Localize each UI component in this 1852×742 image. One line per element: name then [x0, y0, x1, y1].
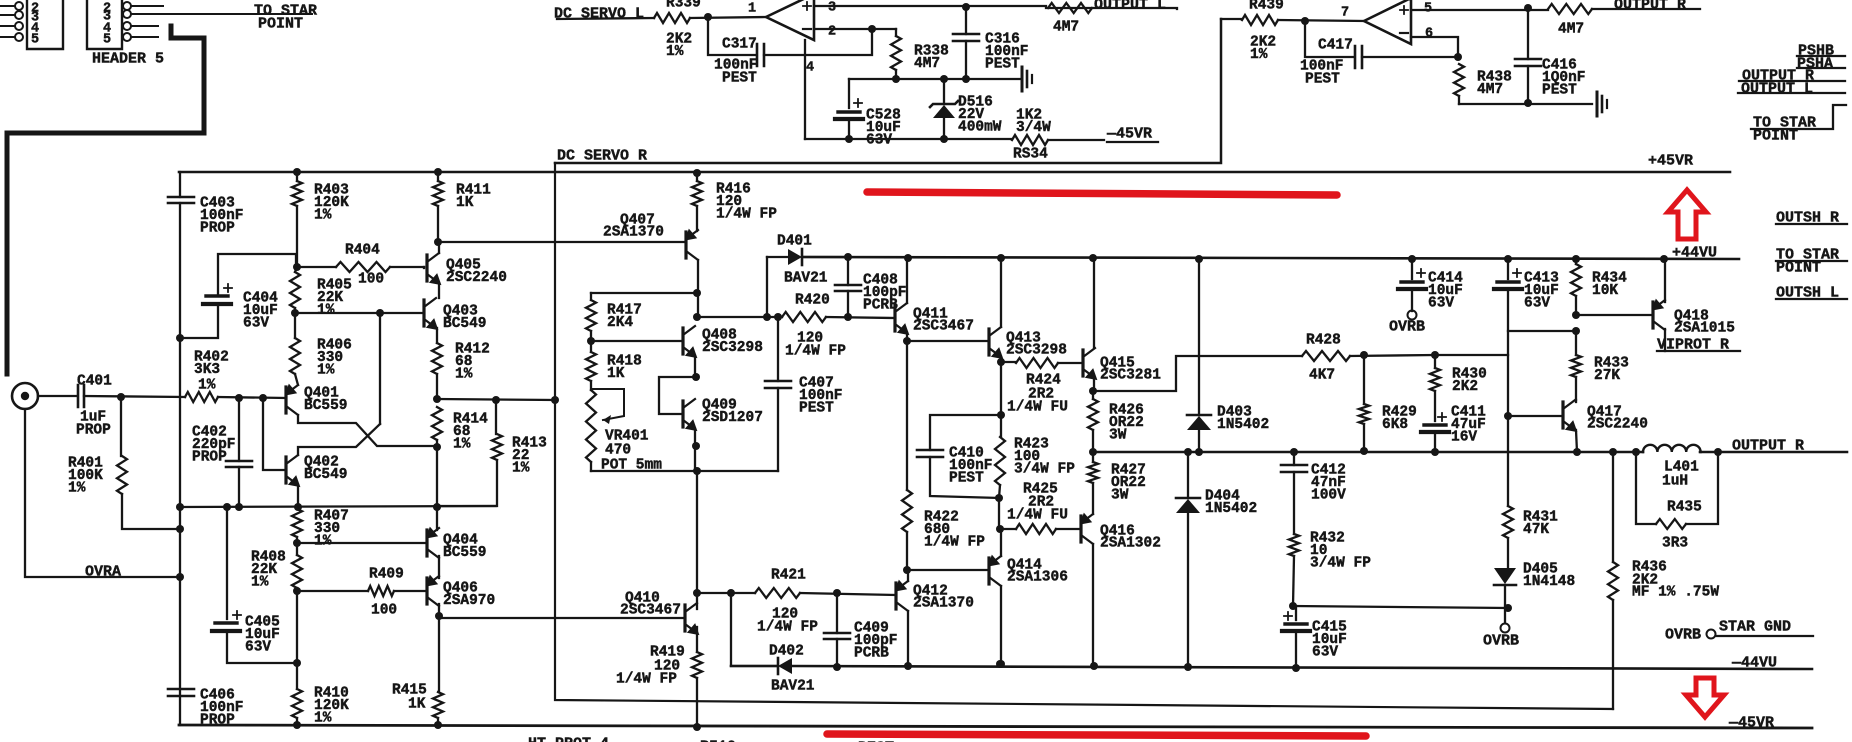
- svg-text:—44VU: —44VU: [1731, 655, 1777, 672]
- svg-text:R439: R439: [1249, 0, 1284, 13]
- pot VR401 470: [586, 390, 596, 462]
- wire Q411 collector to rail: [906, 258, 908, 303]
- wire Q414 emitter: [1000, 529, 1002, 556]
- wire -45VR branch: [805, 138, 1012, 140]
- wire dc servo L: [557, 18, 654, 19]
- wire Q405 collector to R411: [438, 242, 440, 253]
- wire R421 to Q412 base: [697, 592, 755, 594]
- wire C413 to bias bus: [1508, 330, 1576, 332]
- wire output L: [1046, 8, 1177, 9]
- diode D402 BAV21: [731, 593, 778, 666]
- ground wire: [849, 78, 1020, 80]
- resistor R433 27K: [1575, 331, 1577, 355]
- svg-text:DC SERVO L: DC SERVO L: [554, 6, 644, 23]
- resistor R410 120K 1%: [296, 591, 298, 689]
- svg-text:MF 1% .75W: MF 1% .75W: [1632, 584, 1719, 600]
- wire to Q403 base: [295, 312, 424, 314]
- resistor R419 120 1/4W FP: [696, 627, 698, 652]
- bus Q405/Q403: [438, 283, 440, 298]
- svg-text:3: 3: [828, 1, 836, 16]
- svg-text:OVRB: OVRB: [1389, 319, 1425, 336]
- cross-coupling wires: [298, 415, 437, 446]
- resistor R429 6K8: [1363, 355, 1365, 404]
- svg-text:R435: R435: [1667, 499, 1702, 515]
- capacitor C407 100nF PEST: [777, 317, 779, 381]
- resistor R403 120K 1%: [293, 168, 301, 176]
- pin 2 stub: [131, 5, 163, 7]
- svg-text:4M7: 4M7: [1477, 82, 1503, 98]
- svg-text:—45VR: —45VR: [1728, 715, 1774, 732]
- capacitor C316 100nF PEST: [965, 7, 967, 34]
- connector HEADER 5: [87, 0, 122, 49]
- capacitor C414 10uF 63V: [1411, 259, 1413, 279]
- transistor Q405 2SC2240: [425, 255, 428, 281]
- resistor R407 330 1%: [296, 507, 298, 509]
- resistor R432 10 3/4W FP: [1289, 534, 1299, 556]
- resistor R413 22 1%: [495, 400, 497, 434]
- svg-text:4M7: 4M7: [1558, 21, 1584, 37]
- svg-text:63V: 63V: [866, 133, 892, 149]
- node: [704, 13, 712, 21]
- svg-text:3K3: 3K3: [194, 362, 220, 378]
- svg-text:HEADER 5: HEADER 5: [92, 51, 164, 68]
- svg-text:2SC3467: 2SC3467: [913, 318, 974, 334]
- wire VR401 bottom to C407: [591, 470, 778, 472]
- wire Q406 emitter to Q410 base: [439, 604, 685, 618]
- wire Q416 collector: [1092, 544, 1094, 666]
- svg-text:STAR GND: STAR GND: [1719, 619, 1791, 636]
- svg-text:63V: 63V: [243, 316, 269, 332]
- svg-text:OVRB: OVRB: [1483, 633, 1519, 650]
- svg-text:C417: C417: [1318, 37, 1353, 53]
- pin6 - input wire: [1411, 37, 1458, 57]
- svg-text:1N5402: 1N5402: [1205, 501, 1257, 517]
- transistor Q408 2SC3298: [681, 328, 684, 354]
- svg-text:1K: 1K: [456, 195, 474, 211]
- pin2 - input wire: [814, 28, 896, 30]
- resistor R412 68 1%: [436, 328, 438, 343]
- transistor Q417 2SC2240: [1561, 402, 1564, 428]
- resistor R534 1K2 3/4W: [1012, 135, 1048, 145]
- svg-text:4: 4: [806, 61, 814, 76]
- resistor R417 2K4: [590, 293, 592, 300]
- svg-text:2SA1302: 2SA1302: [1100, 535, 1161, 551]
- node R404/R405: [293, 263, 301, 271]
- wire Q408/Q409 link: [659, 377, 696, 414]
- svg-text:C401: C401: [77, 373, 112, 389]
- signal ground line: [180, 506, 496, 507]
- transistor Q415 2SC3281: [1081, 350, 1084, 376]
- svg-text:PROP: PROP: [76, 422, 111, 438]
- wire OVRA from jack: [25, 409, 180, 577]
- transistor Q406 2SA970: [425, 578, 428, 604]
- svg-text:OVRA: OVRA: [85, 564, 121, 581]
- svg-text:BC559: BC559: [443, 545, 487, 561]
- svg-text:POINT: POINT: [1753, 128, 1798, 145]
- wire base Q405: [423, 267, 425, 268]
- svg-text:2K2: 2K2: [1452, 379, 1478, 395]
- wire R407 to Q404 base: [297, 542, 427, 544]
- svg-text:PEST: PEST: [722, 70, 757, 86]
- terminal OVRB (mid): [1501, 624, 1510, 633]
- capacitor C404 10uF 63V: [218, 254, 296, 296]
- svg-text:1%: 1%: [198, 377, 216, 393]
- wire input: [84, 396, 185, 397]
- transistor Q403 BC549: [422, 300, 425, 326]
- pin3 + input wire: [814, 5, 1046, 7]
- resistor 4M7 (L out): [1048, 3, 1092, 13]
- svg-text:1%: 1%: [314, 534, 332, 550]
- svg-text:2SA970: 2SA970: [443, 593, 495, 609]
- svg-text:1%: 1%: [455, 367, 473, 383]
- svg-text:2SA1370: 2SA1370: [913, 595, 974, 611]
- svg-text:+44VU: +44VU: [1672, 245, 1717, 262]
- svg-text:BAV21: BAV21: [784, 270, 828, 286]
- svg-text:OUTPUT L: OUTPUT L: [1094, 0, 1166, 14]
- resistor R408 22K 1%: [296, 543, 298, 555]
- svg-text:1/4W FP: 1/4W FP: [924, 535, 985, 551]
- svg-text:PEST: PEST: [799, 401, 834, 417]
- svg-text:PEST: PEST: [1305, 71, 1340, 87]
- svg-text:2SA1370: 2SA1370: [603, 224, 664, 240]
- svg-text:5: 5: [1424, 2, 1432, 17]
- resistor R425 2R2 1/4W FU: [1000, 528, 1016, 530]
- capacitor C405 10uF 63V: [226, 507, 228, 619]
- resistor R430 2K2: [1434, 355, 1436, 368]
- ground: [1596, 92, 1599, 116]
- resistor R420 120 1/4W FP: [782, 312, 826, 322]
- capacitor C401 1uF PROP: [78, 385, 84, 407]
- transistor Q413 2SC3298: [987, 329, 990, 355]
- svg-text:2SC3467: 2SC3467: [620, 602, 681, 618]
- resistor R423 100 3/4W FP: [1000, 362, 1002, 437]
- svg-text:2SD1207: 2SD1207: [702, 410, 763, 426]
- svg-text:27K: 27K: [1594, 368, 1620, 384]
- capacitor C406 100nF PROP: [168, 689, 194, 696]
- resistor R402 3K3 1%: [185, 392, 218, 402]
- svg-text:3W: 3W: [1111, 488, 1129, 504]
- wire to Q413 base: [907, 340, 989, 342]
- svg-text:R339: R339: [666, 0, 701, 11]
- resistor R406 330 1%: [294, 313, 296, 338]
- wire OVRB row: [1293, 606, 1508, 608]
- resistor R404 100: [297, 266, 336, 268]
- svg-text:6: 6: [1425, 27, 1433, 42]
- resistor R426 OR22 3W: [1092, 391, 1094, 399]
- svg-text:2SC2240: 2SC2240: [446, 270, 507, 286]
- svg-text:100: 100: [358, 271, 384, 287]
- resistor R409 100: [297, 590, 368, 592]
- wire mid to servo bus: [437, 399, 555, 400]
- resistor R435 3R3 parallel: [1636, 452, 1718, 524]
- transistor Q416 2SA1302: [1079, 516, 1082, 542]
- svg-text:1N5402: 1N5402: [1217, 417, 1269, 433]
- svg-text:1%: 1%: [317, 363, 335, 379]
- svg-text:63V: 63V: [1524, 296, 1550, 312]
- transistor Q414 2SA1306: [987, 558, 990, 584]
- svg-text:16V: 16V: [1451, 430, 1477, 446]
- svg-text:5: 5: [31, 33, 39, 48]
- capacitor C403 100nF PROP: [168, 197, 194, 203]
- svg-text:2SC3298: 2SC3298: [1006, 342, 1067, 358]
- svg-text:OUTPUT R: OUTPUT R: [1732, 438, 1804, 455]
- svg-text:D402: D402: [769, 643, 804, 659]
- svg-text:PROP: PROP: [192, 450, 227, 466]
- red underline annotation (top): [867, 192, 1337, 195]
- resistor R401 100K 1%: [120, 397, 122, 456]
- resistor R438 4M7: [1454, 64, 1464, 96]
- svg-text:1: 1: [748, 2, 756, 17]
- svg-text:5: 5: [103, 33, 111, 48]
- svg-text:PROP: PROP: [200, 713, 235, 729]
- svg-text:100V: 100V: [1311, 488, 1346, 504]
- svg-text:1uH: 1uH: [1662, 473, 1688, 489]
- resistor 4M7 (R out): [1548, 4, 1592, 14]
- wire Q416 emitter: [1092, 483, 1094, 514]
- transistor Q418 2SA1015: [1651, 302, 1654, 328]
- svg-text:1/4W FP: 1/4W FP: [757, 619, 818, 635]
- resistor R434 10K: [1575, 259, 1577, 264]
- rail OUTPUT R: [1093, 451, 1847, 454]
- bus between Q404/Q406: [438, 556, 440, 578]
- capacitor C408 100pF PCRB: [847, 257, 849, 285]
- feedback line to DC SERVO R: [555, 163, 1613, 709]
- wire R417 top: [591, 292, 697, 294]
- wire to Q402 base: [263, 398, 286, 470]
- svg-text:PROP: PROP: [200, 221, 235, 237]
- svg-text:1%: 1%: [317, 303, 335, 319]
- wire Q412 emitter: [907, 570, 909, 581]
- resistor R338 4M7: [895, 29, 897, 36]
- wire from jack: [38, 395, 76, 397]
- wire Q418 emitter to rail: [1664, 259, 1666, 302]
- transistor Q412 2SA1370: [894, 583, 897, 609]
- wire Q411 emitter bus: [906, 333, 908, 341]
- svg-text:1%: 1%: [1250, 47, 1268, 63]
- wire to op-amp: [690, 17, 766, 18]
- zener D516 22V 400mW: [943, 79, 945, 104]
- svg-text:1/4W FP: 1/4W FP: [616, 671, 677, 687]
- svg-text:RS34: RS34: [1013, 146, 1048, 162]
- wire to op-amp: [1278, 20, 1364, 21]
- transistor Q407 2SA1370: [684, 232, 687, 258]
- svg-text:PCRB: PCRB: [854, 646, 889, 662]
- op-amp pin4 lead: [804, 40, 806, 139]
- svg-text:400mW: 400mW: [958, 120, 1002, 136]
- red down arrow annotation: [1686, 678, 1724, 717]
- wire from DC SERVO R riser: [1221, 18, 1242, 20]
- capacitor C412 47nF 100V: [1293, 452, 1295, 465]
- diode D404 1N5402: [1187, 452, 1189, 498]
- svg-text:63V: 63V: [1428, 296, 1454, 312]
- svg-text:2SC2240: 2SC2240: [1587, 416, 1648, 432]
- transistor Q404 BC559: [425, 530, 428, 556]
- red underline annotation (bottom): [827, 734, 1366, 736]
- svg-text:2SA1306: 2SA1306: [1007, 569, 1068, 585]
- resistor R427 OR22 3W: [1092, 452, 1094, 462]
- svg-text:PEST: PEST: [985, 57, 1020, 73]
- capacitor C402 220pF PROP: [238, 398, 240, 461]
- left decoupling bus: [179, 172, 181, 725]
- svg-text:1/4W FU: 1/4W FU: [1007, 399, 1068, 415]
- svg-text:—45VR: —45VR: [1106, 126, 1152, 143]
- svg-text:4M7: 4M7: [1053, 19, 1079, 35]
- pin 5 stub: [131, 36, 158, 38]
- resistor R436 2K2 MF: [1612, 452, 1614, 562]
- svg-text:2K4: 2K4: [607, 315, 633, 331]
- svg-text:470: 470: [605, 442, 631, 458]
- svg-text:R420: R420: [795, 292, 830, 308]
- capacitor C413 10uF 63V: [1507, 259, 1509, 279]
- terminal OVRB (C414): [1408, 311, 1417, 320]
- resistor R416 120 1/4W FP: [693, 169, 701, 177]
- connector J1 (left, partially cut): [27, 0, 63, 49]
- svg-text:R409: R409: [369, 566, 404, 582]
- svg-text:2SC3281: 2SC3281: [1100, 367, 1161, 383]
- capacitor C528 10uF 63V: [848, 79, 850, 108]
- bottom wire: [1459, 103, 1592, 105]
- transistor Q410 2SC3467: [683, 605, 686, 631]
- resistor R431 47K: [1503, 506, 1513, 538]
- wire Q417 base: [1508, 415, 1563, 417]
- rail -45VR (bottom): [179, 725, 1812, 728]
- capacitor C409 100pF PCRB: [836, 593, 838, 633]
- svg-text:PEST: PEST: [1542, 83, 1577, 99]
- svg-text:OUTPUT R: OUTPUT R: [1614, 0, 1686, 14]
- wire to Q418 base: [1576, 314, 1653, 316]
- svg-text:4K7: 4K7: [1309, 367, 1335, 383]
- wire Q413 collector to rail: [1000, 258, 1002, 327]
- wire to Q414 base: [907, 569, 989, 571]
- resistor R405 22K 1%: [295, 267, 297, 272]
- svg-text:1%: 1%: [251, 575, 269, 591]
- svg-text:HT PROT 4: HT PROT 4: [528, 736, 609, 742]
- svg-text:1%: 1%: [68, 481, 86, 497]
- svg-text:BC549: BC549: [443, 316, 487, 332]
- svg-text:1/4W FP: 1/4W FP: [716, 207, 777, 223]
- emitter sense wire to R428: [1093, 356, 1302, 391]
- svg-text:3/4W: 3/4W: [1016, 120, 1051, 136]
- svg-text:7: 7: [1341, 6, 1349, 21]
- svg-text:47K: 47K: [1523, 522, 1549, 538]
- rail -44VU: [731, 666, 1812, 669]
- thick input screen wire: [7, 26, 204, 374]
- wire Q410 collector: [696, 593, 698, 609]
- resistor R418 1K: [590, 341, 592, 352]
- wire Q415 collector to rail: [1093, 258, 1095, 348]
- svg-text:1/4W FP: 1/4W FP: [785, 343, 846, 359]
- transistor Q409 2SD1207: [681, 401, 684, 427]
- svg-text:100: 100: [371, 602, 397, 618]
- capacitor C415 10uF 63V: [1295, 606, 1297, 620]
- pin5 + input wire: [1411, 9, 1548, 11]
- diode D405 1N4148: [1494, 568, 1516, 584]
- pin 4 stub: [131, 25, 158, 27]
- wire to Q408 base: [591, 340, 683, 342]
- svg-text:R428: R428: [1306, 332, 1341, 348]
- svg-text:2SC3298: 2SC3298: [702, 340, 763, 356]
- wire Q417 collector: [1575, 400, 1577, 402]
- wire C405 node: [293, 659, 301, 667]
- svg-text:OUTPUT L: OUTPUT L: [1741, 81, 1813, 98]
- wire R411 node to Q407 base: [438, 241, 686, 243]
- svg-text:10K: 10K: [1592, 283, 1618, 299]
- wire Q412 collector: [907, 611, 909, 666]
- diode D401 BAV21: [766, 257, 768, 317]
- resistor R424 2R2 1/4W FU: [1001, 361, 1016, 363]
- svg-text:1/4W FU: 1/4W FU: [1007, 507, 1068, 523]
- node dots on -44VU rail: [997, 660, 1005, 668]
- wire Q418 collector to VIPROT: [1664, 329, 1666, 351]
- capacitor C410 100nF PEST loop: [930, 415, 1001, 450]
- svg-text:1%: 1%: [512, 461, 530, 477]
- svg-text:63V: 63V: [245, 640, 271, 656]
- svg-text:1K: 1K: [607, 366, 625, 382]
- svg-text:D401: D401: [777, 233, 812, 249]
- svg-text:3R3: 3R3: [1662, 535, 1688, 551]
- svg-text:PCRB: PCRB: [863, 298, 898, 314]
- svg-text:63V: 63V: [1312, 645, 1338, 661]
- bus Q409: [694, 429, 696, 472]
- capacitor C417 100nF PEST: [1305, 21, 1353, 57]
- resistor R421 120 1/4W FP: [755, 588, 800, 598]
- svg-text:BAV21: BAV21: [771, 678, 815, 694]
- svg-text:OVRB: OVRB: [1665, 627, 1701, 644]
- bus to Q410: [696, 471, 698, 593]
- wire Q417 emitter to output rail: [1576, 430, 1577, 452]
- transistor Q401 BC559: [284, 387, 287, 413]
- red up arrow annotation: [1668, 190, 1706, 239]
- svg-text:1%: 1%: [314, 208, 332, 224]
- capacitor C317 100nF PEST: [708, 17, 755, 55]
- svg-text:1K: 1K: [408, 696, 426, 712]
- wire Q414 collector: [1000, 586, 1002, 664]
- svg-text:+45VR: +45VR: [1648, 153, 1693, 170]
- resistor R411 1K: [434, 168, 442, 176]
- wire Q415 emitter: [1093, 378, 1095, 391]
- transistor Q402 BC549: [284, 457, 287, 483]
- capacitor C411 47uF 16V: [1424, 423, 1446, 426]
- svg-text:4M7: 4M7: [914, 56, 940, 72]
- svg-text:3/4W FP: 3/4W FP: [1014, 462, 1075, 478]
- resistor R414 68 1%: [432, 407, 442, 440]
- svg-text:1%: 1%: [314, 711, 332, 727]
- rail +45VR: [179, 171, 1730, 174]
- ground: [1021, 67, 1024, 91]
- svg-text:2: 2: [828, 25, 836, 40]
- wire Q408 emitter node: [694, 356, 696, 377]
- capacitor C416 100nF PEST: [1527, 8, 1529, 59]
- svg-text:R404: R404: [345, 242, 380, 258]
- wire to -45VR: [1048, 139, 1104, 141]
- svg-text:R421: R421: [771, 567, 806, 583]
- inductor L401 1uH: [1643, 445, 1701, 452]
- resistor R339 2K2: [654, 13, 690, 23]
- wire R420 feed: [697, 316, 782, 318]
- resistor R428 4K7: [1302, 351, 1350, 361]
- bus Q404/Q406: [436, 447, 438, 530]
- svg-text:6K8: 6K8: [1382, 417, 1408, 433]
- svg-text:C317: C317: [722, 36, 757, 52]
- svg-text:2SA1015: 2SA1015: [1674, 320, 1735, 336]
- svg-text:BC559: BC559: [304, 398, 348, 414]
- svg-text:1%: 1%: [453, 437, 471, 453]
- svg-text:1%: 1%: [666, 44, 684, 60]
- pin 3 wire to star point: [131, 13, 312, 15]
- svg-text:POINT: POINT: [258, 16, 303, 33]
- resistor R422 680 1/4W FP: [906, 341, 908, 490]
- resistor R439 2K2: [1242, 15, 1278, 25]
